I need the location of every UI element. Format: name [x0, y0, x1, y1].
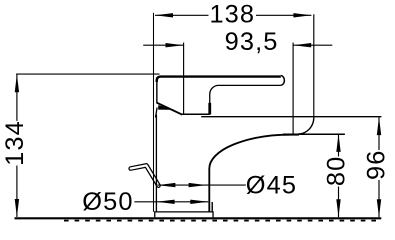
dimension 134 dim line top segment — [16, 75, 18, 121]
faucet front edge below aerator — [156, 108, 158, 118]
svg-text:Ø50: Ø50 — [82, 188, 133, 216]
faucet body left edge — [155, 115, 157, 212]
dimension 96 dim line top segment — [378, 117, 380, 150]
faucet base skirt right edge — [211, 202, 213, 212]
dimension 96 bottom arrowhead — [377, 199, 381, 217]
dimension 96 dim line bottom segment — [378, 180, 380, 217]
dimension 138 dim line right segment — [256, 14, 311, 16]
faucet lever right rounded tip — [280, 76, 284, 86]
dimension 134 dim line bottom segment — [16, 166, 18, 218]
faucet body top right corner arc — [298, 117, 313, 133]
dimension D50 right arrowhead — [190, 200, 208, 204]
extension line 93,5 right — [292, 43, 294, 134]
faucet body underside tangent blob — [283, 134, 299, 136]
extension line 138 right — [313, 14, 315, 117]
pop-up drain rod outer — [131, 165, 159, 185]
countertop hatching dashes — [64, 220, 381, 222]
dimension D50 dim line with leader — [134, 201, 208, 203]
dimension 134 top arrowhead — [15, 74, 19, 92]
faucet body sweeping curve and column right edge — [209, 135, 291, 212]
svg-text:96: 96 — [362, 150, 390, 180]
dimension 93,5 dim line right segment — [293, 44, 332, 46]
faucet lever neck collar — [208, 103, 211, 115]
extension line 80 (body underside) — [283, 133, 345, 135]
dimension D45 dim line with leader — [157, 184, 245, 186]
extension line 134 top — [16, 73, 159, 75]
dimension 80 bottom arrowhead — [336, 199, 340, 217]
dimension D50 left arrowhead — [157, 200, 175, 204]
extension line 138 left — [153, 13, 155, 212]
svg-text:138: 138 — [209, 0, 255, 28]
faucet spout front edge — [156, 78, 158, 104]
dimension 96 top arrowhead — [377, 117, 381, 135]
dimension 93,5 dim line left segment — [143, 44, 183, 46]
dimension 138 left arrowhead — [155, 13, 173, 17]
svg-text:Ø45: Ø45 — [246, 172, 297, 200]
dimension 80 dim line bottom segment — [338, 187, 340, 218]
extension line 93,5 left — [183, 43, 185, 114]
svg-text:80: 80 — [322, 156, 350, 186]
dimension 80 dim line top segment — [338, 134, 340, 157]
dimension 138 dim line left segment — [155, 14, 209, 16]
dimension 93,5 left arrowhead — [166, 43, 184, 47]
pop-up drain rod inner white — [131, 165, 159, 185]
svg-text:134: 134 — [1, 120, 29, 166]
svg-text:93,5: 93,5 — [225, 28, 279, 56]
dimension 80 top arrowhead — [336, 134, 340, 152]
faucet lever underside and neck — [210, 85, 280, 103]
dimension D45 right arrowhead — [189, 183, 207, 187]
faucet lever top surface — [157, 77, 281, 82]
extension line 96 (body top) — [201, 116, 381, 118]
dimension D45 left arrowhead — [157, 183, 175, 187]
countertop line — [15, 217, 382, 219]
dimension 138 right arrowhead — [293, 13, 311, 17]
dimension 93,5 right arrowhead — [293, 43, 311, 47]
faucet base flange — [155, 212, 213, 217]
faucet aerator wedge — [158, 105, 174, 110]
faucet spout underside slant — [157, 103, 183, 115]
faucet spout top line — [181, 113, 209, 115]
dimension 134 bottom arrowhead — [15, 199, 19, 217]
